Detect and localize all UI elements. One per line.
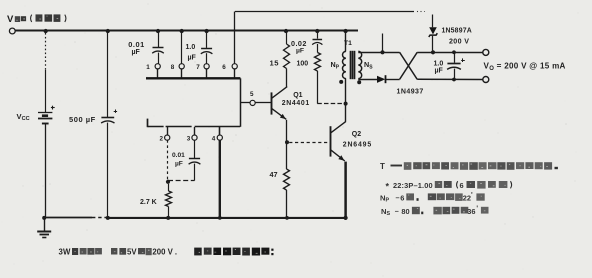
node T1 primary junction [343, 29, 347, 33]
svg-text:8: 8 [171, 64, 175, 71]
svg-text:2N4401: 2N4401 [282, 100, 310, 107]
wire top rail [15, 30, 358, 32]
svg-text:3: 3 [187, 136, 191, 143]
svg-text:6: 6 [460, 181, 464, 190]
wire cap to junction [168, 180, 195, 182]
svg-text:µF: µF [132, 49, 141, 56]
capacitor 0.01uF pin1 [158, 31, 160, 48]
wire 500uF top lead [107, 31, 109, 117]
transistor Q1 2N4401 [272, 87, 288, 121]
svg-text:500 µF: 500 µF [69, 115, 96, 124]
wire rail to T1 primary [345, 31, 347, 52]
diode D1 1N4937 [377, 75, 386, 83]
svg-text:4: 4 [212, 136, 216, 143]
wire Q1 emitter to Q2 base dashed [289, 142, 329, 144]
wire pin4 to ground rail [219, 140, 221, 218]
T1 primary phasing dot [339, 80, 343, 84]
resistor R100 100 ohm [315, 53, 321, 72]
wire stub above secondary [382, 34, 384, 53]
svg-text:22:3P–1.00: 22:3P–1.00 [393, 181, 433, 190]
input terminal VBB [9, 28, 15, 34]
svg-text:2.7 K: 2.7 K [140, 199, 157, 206]
T1 secondary phasing dot [357, 80, 361, 84]
svg-text:Q2: Q2 [352, 131, 361, 138]
node Q1 emitter junction [285, 140, 289, 144]
svg-text:V: V [7, 14, 14, 25]
wire output top [417, 52, 483, 54]
capacitor 0.02uF [313, 39, 323, 41]
node snubber/collector junction [344, 102, 348, 106]
caption line [59, 248, 274, 257]
wire battery to ground rail [45, 123, 47, 218]
node timing junction [166, 180, 170, 184]
battery VCC [38, 106, 55, 124]
wire pin2 dashed [167, 140, 169, 180]
node pin1 cap junction [156, 29, 160, 33]
node R47 ground junction [285, 216, 289, 220]
wire R15 to Q1 collector [286, 69, 288, 87]
node Q2 emitter ground junction [344, 216, 348, 220]
node battery junction [44, 29, 48, 33]
T1 core [350, 51, 352, 79]
output terminal - [483, 77, 489, 83]
wire pin 8 [181, 31, 183, 64]
note line 2 [386, 181, 512, 192]
wire T1 secondary top [358, 52, 399, 54]
svg-text:1N4937: 1N4937 [397, 89, 424, 96]
svg-text:80: 80 [401, 207, 409, 216]
wire R100 down [317, 71, 319, 104]
svg-text:µF: µF [296, 48, 304, 55]
node zener/output junction [431, 50, 435, 54]
diode zener 1N5897A [429, 27, 438, 37]
node R15 junction [284, 29, 288, 33]
wire rail to snubber [317, 31, 319, 39]
svg-text:µF: µF [188, 55, 197, 62]
node pin4 ground junction [218, 216, 222, 220]
svg-text:–: – [395, 206, 399, 215]
resistor R15 15 ohm [284, 44, 290, 69]
note line 1 [380, 162, 558, 171]
svg-text:µF: µF [435, 67, 444, 74]
wire zener top lead [432, 15, 434, 28]
wire battery lead [45, 33, 47, 70]
svg-text:0.01: 0.01 [172, 152, 185, 159]
capacitor 500uF [101, 117, 114, 119]
svg-text:–: – [396, 193, 400, 202]
svg-text:T: T [380, 162, 385, 171]
capacitor C timing 0.01uF [194, 140, 196, 158]
svg-text:µF: µF [175, 160, 183, 167]
node snubber junction [315, 29, 319, 33]
svg-text:*: * [386, 182, 390, 192]
svg-text:100: 100 [297, 61, 309, 68]
wire snubber to Q2 collector [317, 103, 345, 105]
svg-text:2N6495: 2N6495 [343, 142, 372, 149]
svg-text:47: 47 [270, 170, 278, 179]
svg-text:36: 36 [467, 207, 475, 216]
note line 3 [380, 192, 485, 204]
node pin7 cap junction [204, 29, 208, 33]
wire Q2 emitter to ground rail [344, 162, 347, 218]
wire pin6 feedback line [234, 12, 236, 64]
wire pin5 to Q1 base [255, 102, 271, 104]
svg-text:1.0: 1.0 [186, 44, 196, 51]
node 500uF junction [106, 29, 110, 33]
resistor R47 47 ohm [284, 169, 290, 190]
wire zener bottom lead [432, 36, 434, 51]
svg-text:200 V: 200 V [449, 37, 469, 45]
svg-text:1N5897A: 1N5897A [442, 28, 472, 35]
transistor Q2 2N6495 [330, 121, 346, 162]
T1 primary winding Np [342, 51, 345, 78]
capacitor 1.0uF output [454, 52, 456, 63]
wire T1 secondary bottom [358, 79, 377, 81]
svg-text:15: 15 [270, 58, 280, 67]
svg-text:5V: 5V [127, 248, 137, 257]
wire R47 to rail [286, 190, 288, 218]
svg-text:7: 7 [196, 64, 200, 71]
wire rail to R15 [286, 31, 288, 44]
resistor 2.7K [168, 184, 170, 191]
T1 secondary winding Ns [358, 51, 361, 78]
node 500uF ground junction [106, 216, 110, 220]
svg-text:3W: 3W [59, 248, 72, 257]
wire ground rail [44, 217, 92, 219]
svg-text:Q1: Q1 [293, 92, 302, 99]
svg-text:6: 6 [222, 64, 226, 71]
wire 500uF bottom lead [107, 123, 109, 218]
node pin8 junction [180, 29, 184, 33]
capacitor 1.0uF pin7 [206, 31, 208, 48]
label supply VBB [7, 14, 66, 25]
ground [37, 219, 51, 238]
op-amp U1 control IC box [146, 78, 241, 127]
svg-text:22: 22 [463, 193, 471, 202]
node secondary stub junction [380, 50, 384, 54]
wire cap to R100 [317, 44, 319, 53]
svg-text:200 V .: 200 V . [152, 248, 177, 257]
wire T1 primary bottom to Q2 collector [345, 78, 347, 121]
wire crossover B [400, 52, 418, 79]
wire Q1 emitter down [286, 120, 288, 169]
svg-text:1.0: 1.0 [434, 60, 444, 67]
wire output bottom [417, 78, 483, 80]
note line 4 [381, 205, 489, 217]
wire crossover A [400, 52, 418, 79]
svg-text:1: 1 [146, 64, 150, 71]
svg-text:0.01: 0.01 [128, 40, 145, 49]
svg-text:6: 6 [400, 193, 404, 202]
output terminal + [483, 49, 489, 55]
node ground junction [42, 216, 46, 220]
node 2.7K ground junction [166, 216, 170, 220]
svg-text:5: 5 [250, 91, 254, 98]
svg-text:2: 2 [160, 136, 164, 143]
